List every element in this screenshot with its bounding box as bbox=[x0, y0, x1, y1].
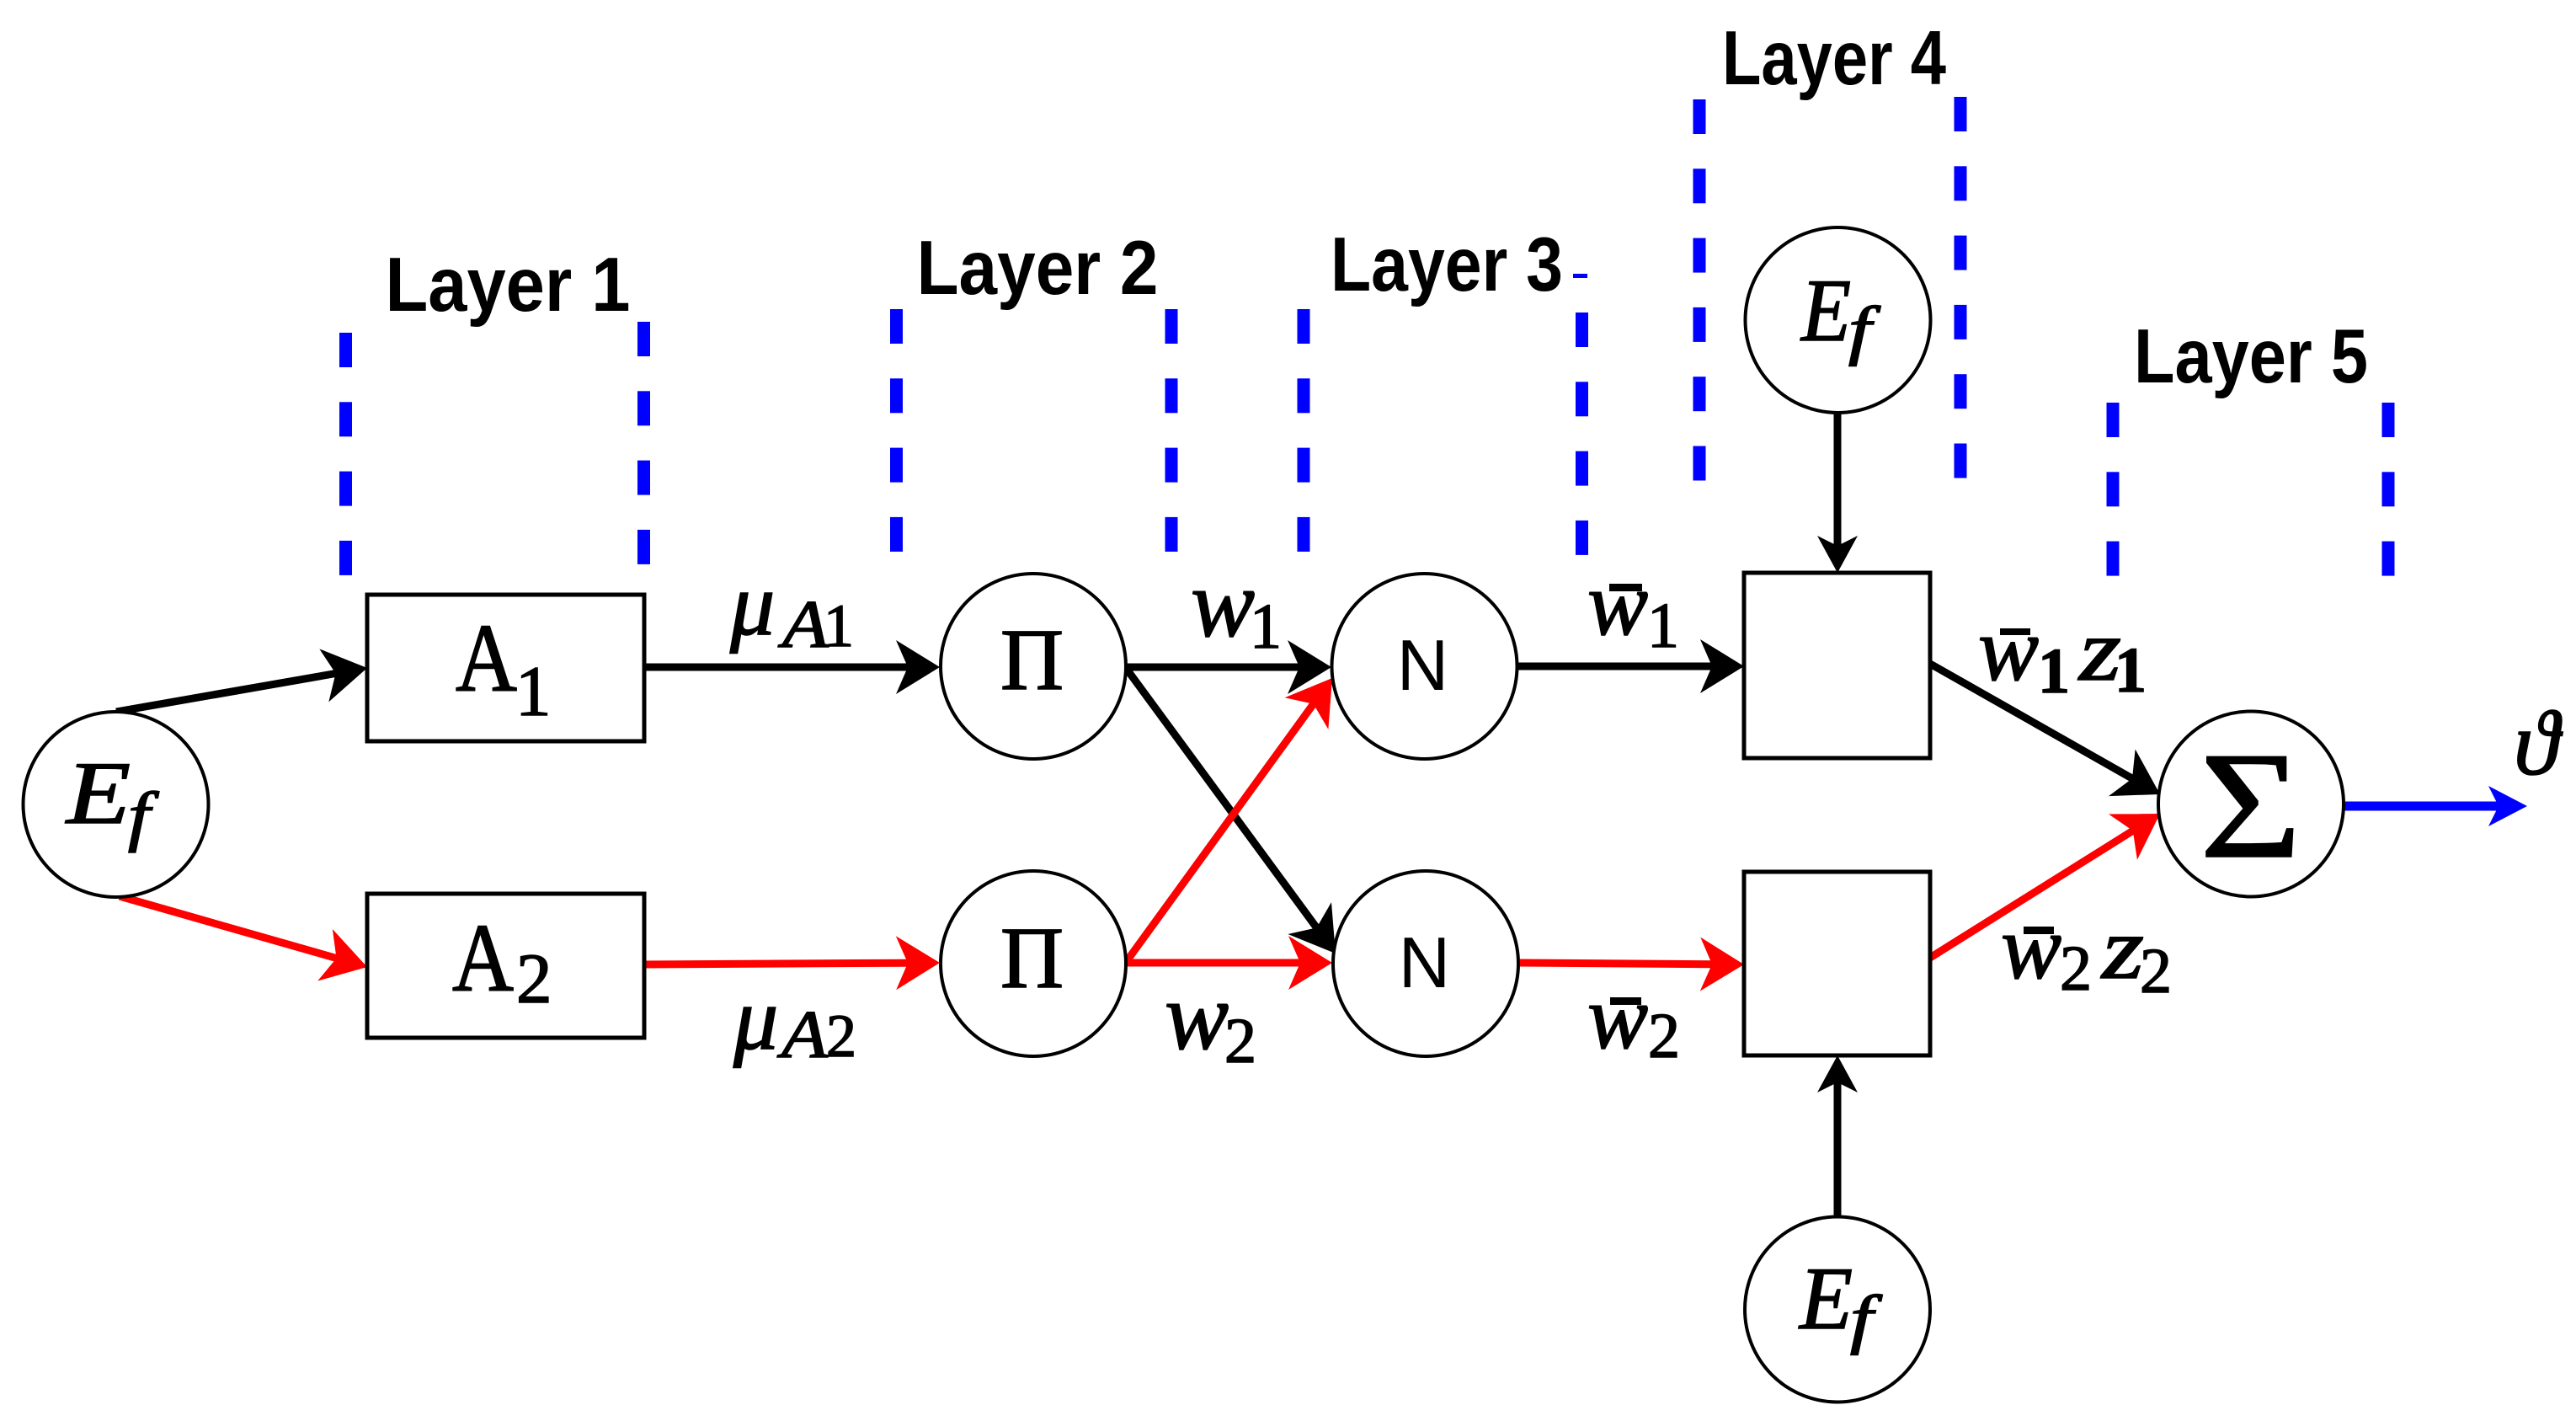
label mu_A2 mu bbox=[733, 970, 778, 1068]
wire Pi1 to N1, w1 (black arrow) bbox=[1127, 664, 1299, 671]
svg-text:ϑ: ϑ bbox=[2514, 692, 2563, 794]
layer 3 left dashed boundary bbox=[1298, 309, 1310, 552]
label Ef top E bbox=[1800, 261, 1851, 360]
node N2 circle bbox=[1333, 871, 1518, 1056]
svg-text:μ: μ bbox=[733, 970, 778, 1068]
svg-text:2: 2 bbox=[2140, 936, 2172, 1007]
node Sigma output circle bbox=[2158, 712, 2344, 897]
label Layer 5 bbox=[2134, 314, 2368, 399]
node Ef bottom circle bbox=[1745, 1217, 1930, 1402]
layer 2 left dashed boundary bbox=[890, 309, 903, 552]
label wbar2z2 sub 2 bbox=[2060, 933, 2092, 1004]
label w1 sub 1 bbox=[1250, 591, 1282, 662]
layer 5 left dashed boundary bbox=[2107, 403, 2120, 576]
layer 1 left dashed boundary bbox=[339, 333, 352, 575]
label wbar2 overbar bbox=[1610, 997, 1641, 1005]
wire A2 to Pi2, mu_A2 (red arrow) bbox=[644, 963, 908, 964]
wire Pi1 to N2 cross (black arrow) bbox=[1126, 668, 1317, 927]
label Layer 3 bbox=[1331, 222, 1563, 307]
small blue tick after Layer 3 bbox=[1573, 274, 1587, 278]
label wbar1 w bbox=[1587, 554, 1648, 654]
label mu_A1 mu bbox=[729, 555, 775, 654]
svg-text:w: w bbox=[2001, 898, 2061, 998]
label w2 w bbox=[1165, 963, 1229, 1070]
layer 2 right dashed boundary bbox=[1165, 309, 1178, 552]
svg-text:1: 1 bbox=[1647, 590, 1679, 661]
label wbar2 w bbox=[1587, 968, 1648, 1068]
svg-text:w: w bbox=[1587, 554, 1648, 654]
label mu_A1 sub A bbox=[777, 588, 829, 662]
label vartheta output bbox=[2514, 692, 2563, 794]
label wbar1z1 overbar bbox=[2000, 628, 2030, 635]
label wbar1z1 w bbox=[1978, 600, 2039, 700]
node N1 circle bbox=[1332, 574, 1517, 759]
label Ef input E bbox=[65, 744, 131, 842]
node square2 (layer4 bottom) bbox=[1744, 872, 1930, 1055]
svg-text:2: 2 bbox=[1224, 1006, 1256, 1076]
label A2 (box) bbox=[452, 905, 514, 1012]
label wbar2z2 overbar bbox=[2024, 927, 2054, 934]
label wbar1 overbar bbox=[1609, 584, 1642, 591]
label Ef top f bbox=[1848, 293, 1881, 366]
label Pi1 bbox=[1000, 612, 1064, 708]
wire Ef to A1 (black arrow) bbox=[116, 674, 336, 713]
node A1 box bbox=[367, 595, 644, 741]
svg-text:2: 2 bbox=[2060, 933, 2092, 1004]
node Pi1 circle bbox=[941, 574, 1126, 759]
svg-text:Σ: Σ bbox=[2200, 722, 2301, 890]
svg-text:2: 2 bbox=[1648, 1001, 1680, 1071]
layer 1 right dashed boundary bbox=[637, 322, 650, 564]
label Layer 2 bbox=[917, 226, 1159, 311]
svg-text:2: 2 bbox=[826, 1002, 856, 1070]
svg-text:z: z bbox=[2100, 899, 2144, 997]
svg-text:1: 1 bbox=[515, 652, 552, 731]
svg-text:N: N bbox=[1397, 626, 1448, 706]
wire N1 to square1, wbar1 (black arrow) bbox=[1517, 663, 1712, 670]
label N1 bbox=[1397, 626, 1448, 706]
label wbar2 sub 2 bbox=[1648, 1001, 1680, 1071]
svg-text:A: A bbox=[456, 605, 517, 712]
svg-text:A: A bbox=[777, 588, 829, 662]
label Ef input f bbox=[128, 780, 160, 853]
svg-text:1: 1 bbox=[2038, 636, 2070, 707]
wire Pi2 to N2, w2 (red arrow) bbox=[1127, 959, 1300, 967]
svg-text:Layer 5: Layer 5 bbox=[2134, 314, 2368, 399]
wire Pi2 to N1 cross (red arrow) bbox=[1127, 704, 1314, 961]
wire A1 to Pi1, mu_A1 (black arrow) bbox=[644, 664, 908, 671]
svg-text:Π: Π bbox=[1000, 612, 1064, 708]
wire square1 to Sigma, wbar1z1 (black arrow) bbox=[1930, 664, 2132, 778]
label wbar1z1 z bbox=[2077, 601, 2121, 699]
wire Ef-top to square1 (black arrow) bbox=[1834, 413, 1842, 546]
layer 4 left dashed boundary bbox=[1693, 99, 1706, 481]
node Ef top circle bbox=[1746, 227, 1931, 413]
layer 5 right dashed boundary bbox=[2382, 403, 2395, 576]
node square1 (layer4 top) bbox=[1744, 573, 1930, 758]
svg-text:A: A bbox=[452, 905, 514, 1012]
svg-text:E: E bbox=[65, 744, 131, 842]
label Pi2 bbox=[1000, 910, 1064, 1007]
wire Ef to A2 (red arrow) bbox=[120, 896, 337, 959]
label Ef bottom E bbox=[1798, 1249, 1853, 1348]
svg-text:Π: Π bbox=[1000, 910, 1064, 1007]
label A1 (box) bbox=[456, 605, 517, 712]
label A1 subscript 1 bbox=[515, 652, 552, 731]
svg-text:w: w bbox=[1587, 968, 1648, 1068]
svg-text:1: 1 bbox=[824, 592, 854, 660]
label Layer 4 bbox=[1722, 16, 1946, 101]
svg-text:E: E bbox=[1798, 1249, 1853, 1348]
label wbar2z2 sub 2b bbox=[2140, 936, 2172, 1007]
label mu_A1 sub 1 bbox=[824, 592, 854, 660]
svg-text:w: w bbox=[1978, 600, 2039, 700]
label wbar1 sub 1 bbox=[1647, 590, 1679, 661]
label w1 w bbox=[1191, 550, 1255, 657]
label wbar2z2 w bbox=[2001, 898, 2061, 998]
svg-text:Layer 3: Layer 3 bbox=[1331, 222, 1563, 307]
label mu_A2 sub A bbox=[776, 998, 829, 1072]
label Layer 1 bbox=[386, 243, 631, 328]
label N2 bbox=[1399, 923, 1450, 1003]
label mu_A2 sub 2 bbox=[826, 1002, 856, 1070]
node Pi2 circle bbox=[941, 871, 1126, 1056]
svg-text:w: w bbox=[1165, 963, 1229, 1070]
svg-text:Layer 2: Layer 2 bbox=[917, 226, 1159, 311]
label w2 sub 2 bbox=[1224, 1006, 1256, 1076]
label wbar2z2 z bbox=[2100, 899, 2144, 997]
svg-text:E: E bbox=[1800, 261, 1851, 360]
layer 4 right dashed boundary bbox=[1955, 97, 1967, 478]
svg-text:1: 1 bbox=[1250, 591, 1282, 662]
svg-text:w: w bbox=[1191, 550, 1255, 657]
label Ef bottom f bbox=[1850, 1282, 1883, 1355]
svg-text:A: A bbox=[776, 998, 829, 1072]
wire square2 to Sigma, wbar2z2 (red arrow) bbox=[1930, 831, 2133, 958]
node A2 box bbox=[367, 894, 644, 1038]
label wbar1z1 sub 1 bbox=[2038, 636, 2070, 707]
node Ef input circle bbox=[24, 712, 209, 897]
label A2 subscript 2 bbox=[516, 939, 552, 1018]
svg-text:Layer 1: Layer 1 bbox=[386, 243, 631, 328]
svg-text:μ: μ bbox=[729, 555, 775, 654]
svg-text:1: 1 bbox=[2115, 635, 2147, 706]
wire N2 to square2, wbar2 (red arrow) bbox=[1520, 963, 1712, 964]
svg-text:Layer 4: Layer 4 bbox=[1722, 16, 1946, 101]
layer 3 right dashed boundary bbox=[1576, 313, 1588, 555]
label wbar1z1 sub 1b bbox=[2115, 635, 2147, 706]
svg-text:N: N bbox=[1399, 923, 1450, 1003]
wire Ef-bottom to square2 (black arrow) bbox=[1834, 1082, 1842, 1216]
wire Sigma output, vartheta (blue arrow) bbox=[2344, 802, 2499, 811]
svg-text:2: 2 bbox=[516, 939, 552, 1018]
label Sigma bbox=[2200, 722, 2301, 890]
